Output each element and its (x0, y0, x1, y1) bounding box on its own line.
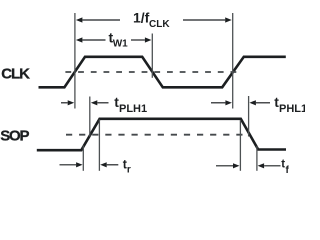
node L4 SOP falling 50% guide (248, 96, 250, 137)
wire 1/f_CLK dimension right (183, 19, 225, 21)
node SOP 50% dashed level (66, 134, 248, 136)
svg-text:f: f (286, 165, 290, 175)
svg-text:CLK: CLK (149, 19, 170, 30)
node t_f right guide (256, 146, 258, 171)
wire t_PHL1 arrow right (256, 102, 270, 104)
wire t_PLH1 arrow right (97, 102, 108, 104)
wire t_W1 dimension right (131, 39, 145, 41)
wire 1/f_CLK dimension left (60, 17, 281, 168)
wire t_r arrow left (60, 164, 77, 166)
wire t_W1 dimension left (82, 39, 105, 41)
wire SOP waveform (37, 119, 286, 150)
svg-text:W1: W1 (113, 39, 128, 50)
wire t_f arrow right (264, 165, 280, 167)
node L2 CLK falling 50% guide (151, 34, 153, 78)
svg-text:PLH1: PLH1 (119, 103, 147, 115)
svg-text:PHL1: PHL1 (279, 103, 305, 115)
node L5 SOP rising 50% guide (89, 97, 91, 137)
wire t_f arrow left (216, 165, 233, 167)
node t_r right guide (98, 120, 100, 171)
wire t_r arrow right (107, 164, 119, 166)
svg-text:CLK: CLK (1, 65, 30, 82)
wire t_PLH1 arrow left (61, 102, 68, 104)
node CLK 50% dashed level (65, 71, 240, 73)
wire t_PHL1 arrow left (211, 102, 225, 104)
node t_f left guide (239, 120, 241, 171)
svg-text:1/f: 1/f (133, 10, 150, 26)
node L1 CLK rising 50% guide (74, 13, 76, 109)
wire CLK waveform (39, 57, 286, 88)
svg-text:r: r (127, 164, 131, 175)
svg-text:SOP: SOP (0, 127, 29, 144)
node L3 CLK 2nd rising 50% guide (232, 13, 234, 109)
node t_r left guide (82, 146, 84, 171)
